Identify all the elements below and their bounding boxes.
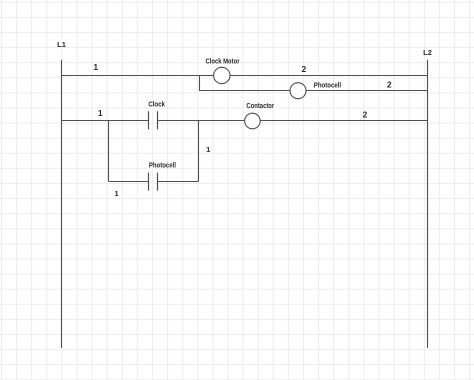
rung 1 lower branch wire — [199, 90, 428, 92]
branch drop wire from rung 1 — [199, 76, 201, 91]
branch bottom wire left segment — [109, 181, 149, 183]
svg-text:1: 1 — [115, 189, 119, 198]
parallel branch left wire — [108, 121, 110, 182]
parallel branch right wire — [198, 121, 200, 182]
svg-text:Contactor: Contactor — [246, 101, 274, 110]
svg-text:2: 2 — [302, 64, 307, 74]
svg-text:2: 2 — [387, 79, 392, 89]
svg-text:Photocell: Photocell — [149, 161, 176, 170]
contactor coil Contactor — [245, 113, 261, 129]
rung 2 wire left segment — [62, 120, 149, 122]
svg-text:1: 1 — [206, 145, 210, 154]
NO contact Photocell — [149, 173, 158, 191]
svg-text:1: 1 — [98, 108, 103, 118]
right power rail L2 — [427, 60, 429, 348]
svg-text:L2: L2 — [423, 48, 432, 57]
NO contact Clock — [149, 111, 158, 129]
svg-text:Photocell: Photocell — [314, 80, 341, 89]
rung 1 wire — [62, 75, 428, 77]
left power rail L1 — [61, 60, 63, 348]
svg-text:L1: L1 — [57, 40, 66, 49]
branch bottom wire right segment — [158, 181, 199, 183]
svg-text:1: 1 — [93, 62, 98, 72]
svg-text:Clock: Clock — [148, 100, 165, 109]
photocell output circle — [290, 83, 306, 99]
svg-text:2: 2 — [363, 110, 368, 120]
rung 2 wire right segment — [158, 120, 428, 122]
motor output Clock Motor — [214, 67, 230, 83]
svg-text:Clock Motor: Clock Motor — [206, 57, 240, 66]
